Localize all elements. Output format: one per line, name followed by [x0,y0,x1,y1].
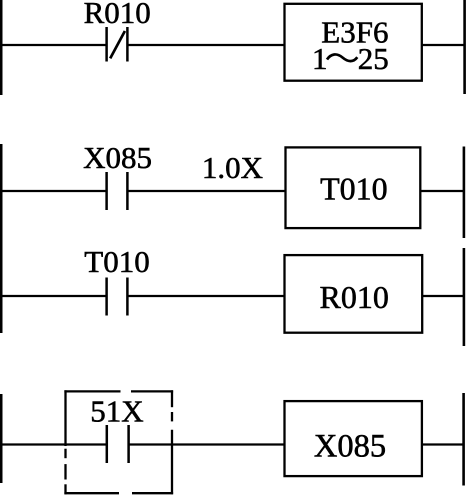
svg-text:1: 1 [312,41,328,76]
svg-text:T010: T010 [84,244,149,279]
svg-text:1.0X: 1.0X [202,150,263,185]
svg-text:R010: R010 [320,279,389,315]
svg-text:25: 25 [358,41,389,76]
svg-text:R010: R010 [84,0,151,30]
svg-text:X085: X085 [314,428,386,464]
svg-text:X085: X085 [83,140,152,175]
svg-text:51X: 51X [90,394,143,429]
svg-text:T010: T010 [320,171,388,207]
